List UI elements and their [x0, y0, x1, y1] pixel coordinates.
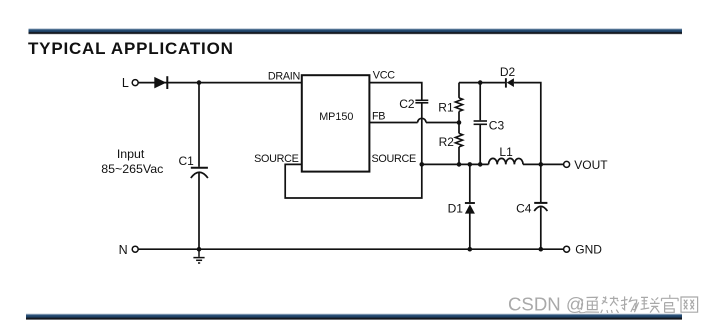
wire L row: terminal L to DRAIN pin: [138, 82, 301, 84]
网: [681, 297, 698, 312]
svg-text:SOURCE: SOURCE: [372, 153, 416, 165]
wire C2 bottom to source row: [421, 104, 423, 165]
bottom horizontal rule: [26, 313, 682, 320]
junction VOUT node / D2 / C4 / L1: [539, 162, 544, 167]
wire C3 top lead: [479, 83, 481, 121]
capacitor C1: [191, 168, 208, 178]
svg-text:C4: C4: [516, 201, 532, 215]
svg-text:GND: GND: [575, 243, 602, 257]
wire R1 top lead: [458, 83, 460, 98]
diode input rectifier (unlabelled): [154, 76, 167, 89]
svg-text:L: L: [122, 76, 129, 90]
wire C3 bottom lead: [479, 125, 481, 164]
wire D1 top lead: [469, 164, 471, 202]
wire D1 bottom lead: [469, 213, 471, 249]
junction FB / R1 / R2 node: [457, 120, 462, 125]
wire source row to L1: [422, 163, 489, 165]
svg-text:FB: FB: [372, 111, 385, 123]
wire L1 to VOUT terminal: [523, 163, 564, 165]
junction L row / C1 branch: [197, 80, 202, 85]
capacitor C4: [534, 203, 547, 211]
wire FB to R1/R2 node: [426, 122, 459, 124]
wire C4 top lead: [540, 164, 542, 202]
diode D2: [506, 78, 514, 87]
junction top rail / C3 top: [478, 80, 483, 85]
junction N row / ground: [197, 247, 202, 252]
resistor R1: [455, 98, 462, 111]
top horizontal rule: [29, 28, 683, 34]
svg-text:C1: C1: [178, 154, 194, 168]
capacitor C2: [415, 100, 428, 103]
junction GND row / D1 anode: [468, 247, 473, 252]
capacitor C3: [474, 121, 487, 124]
svg-text:D1: D1: [448, 202, 464, 216]
diode D1: [465, 203, 475, 214]
node VOUT terminal: [564, 161, 570, 167]
watermark CJK glyphs: [579, 295, 697, 313]
wire R2 bottom lead: [458, 147, 460, 165]
resistor R2: [455, 133, 462, 147]
wire C1 bottom to N row: [198, 173, 200, 250]
wire top rail R1 to D2 anode: [459, 82, 506, 84]
wire source loop under IC: [285, 164, 422, 198]
svg-text:DRAIN: DRAIN: [268, 71, 300, 83]
svg-text:N: N: [119, 243, 128, 257]
svg-text:R2: R2: [439, 135, 455, 149]
svg-text:SOURCE: SOURCE: [254, 153, 298, 165]
junction source row / R2 bottom: [457, 162, 462, 167]
svg-text:VCC: VCC: [373, 70, 395, 82]
ground: [193, 249, 204, 263]
通: [579, 297, 599, 313]
wire R2 top lead: [458, 123, 460, 134]
wire C4 bottom lead: [540, 207, 542, 249]
wire R1 bottom lead: [458, 111, 460, 122]
联: [641, 297, 660, 312]
node GND terminal: [564, 246, 570, 252]
junction source row / C3 bottom: [478, 162, 483, 167]
junction source row / C2 bottom / loop: [420, 162, 425, 167]
官: [662, 295, 679, 313]
wire C1 branch top: [198, 83, 200, 167]
svg-text:Input: Input: [117, 147, 145, 161]
svg-text:C3: C3: [489, 119, 505, 133]
svg-text:TYPICAL APPLICATION: TYPICAL APPLICATION: [28, 39, 234, 58]
svg-text:C2: C2: [399, 97, 415, 111]
svg-text:D2: D2: [500, 65, 516, 79]
然: [601, 296, 619, 313]
wire VCC pin to C2 top: [369, 83, 421, 100]
wire N/GND bottom row: [138, 248, 563, 250]
svg-text:L1: L1: [499, 145, 513, 159]
svg-text:85~265Vac: 85~265Vac: [101, 162, 163, 176]
物: [621, 296, 639, 312]
wire FB pin: [369, 122, 417, 124]
wire D2 cathode to VOUT column: [514, 83, 541, 165]
inductor L1: [489, 158, 523, 164]
junction GND row / C4 bottom: [539, 247, 544, 252]
node N terminal: [132, 246, 138, 252]
IC U1 MP150 body: [302, 75, 370, 171]
junction source row / D1 cathode: [468, 162, 473, 167]
svg-text:CSDN @: CSDN @: [508, 294, 585, 315]
svg-text:R1: R1: [438, 100, 454, 114]
svg-text:MP150: MP150: [319, 111, 353, 123]
wire hop over C2 line: [418, 118, 426, 122]
svg-text:VOUT: VOUT: [574, 158, 608, 172]
node L terminal: [132, 80, 138, 86]
